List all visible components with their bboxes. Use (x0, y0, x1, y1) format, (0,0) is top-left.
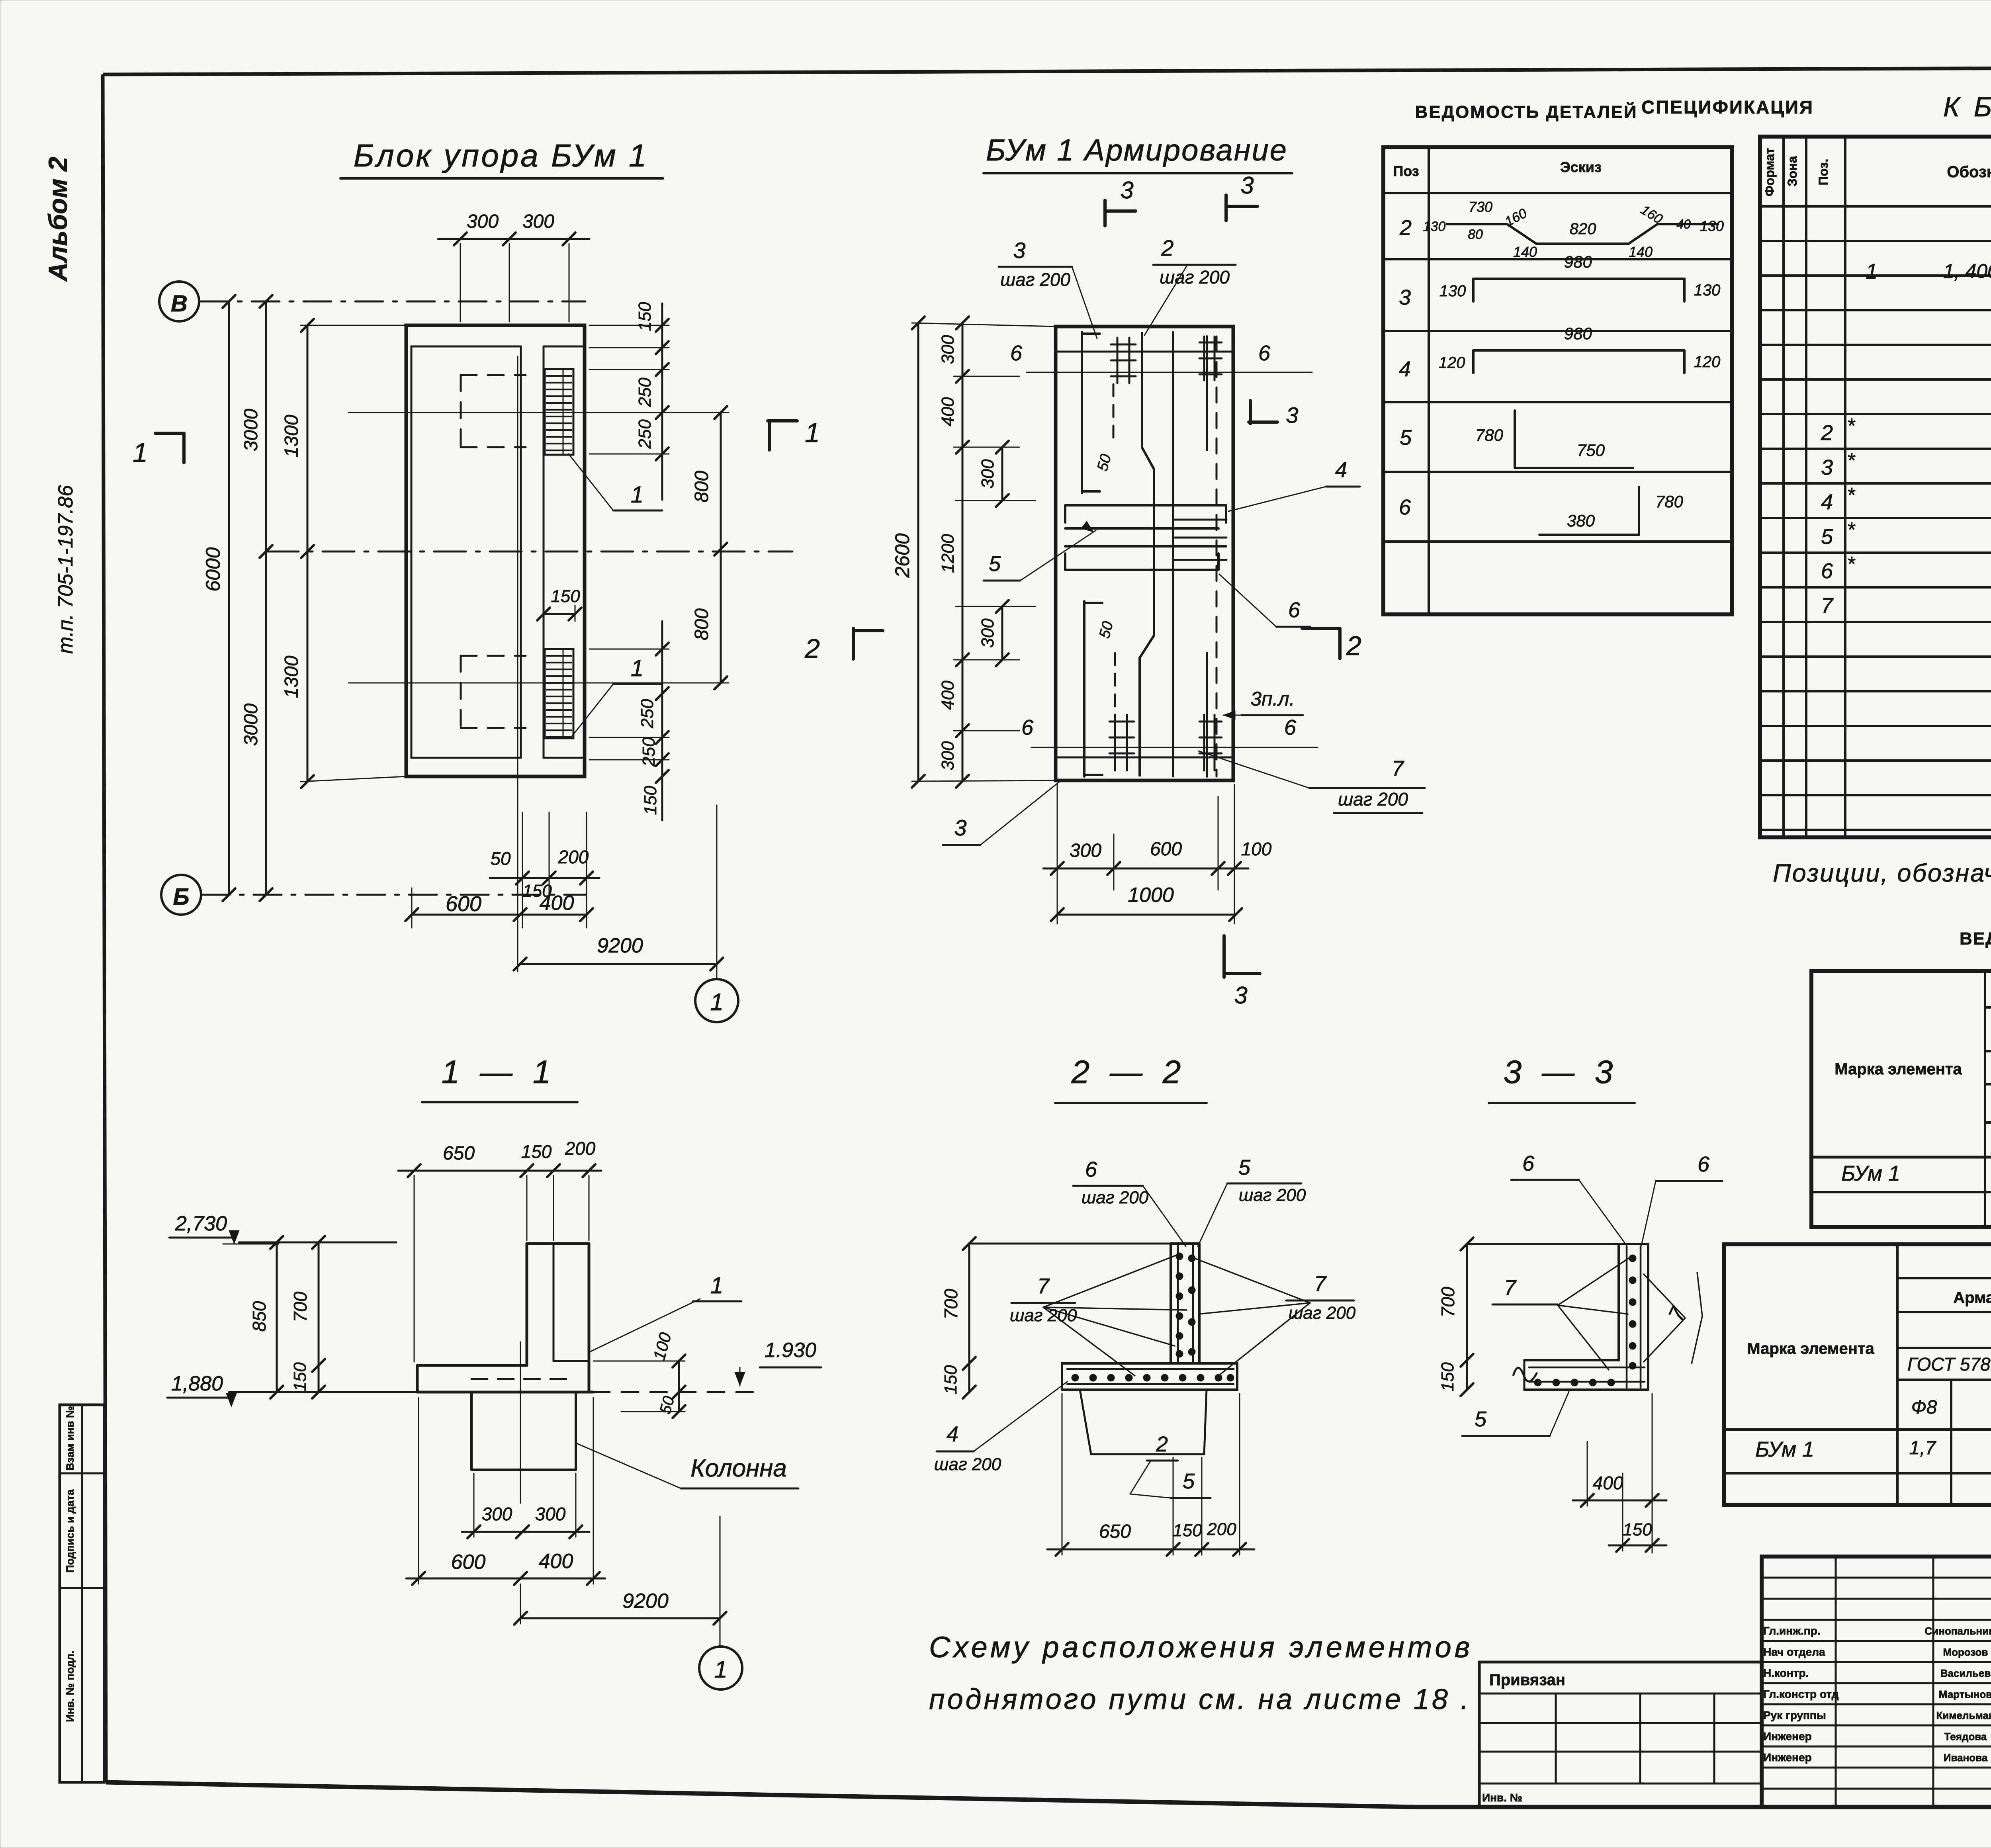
svg-text:300: 300 (978, 459, 997, 489)
section 3-3 fan leaders (1558, 1258, 1629, 1305)
section 3-3 rebar dots vertical (1629, 1255, 1636, 1262)
svg-text:*: * (1847, 518, 1856, 542)
svg-text:шаг 200: шаг 200 (1289, 1303, 1356, 1323)
svg-text:140: 140 (1629, 244, 1653, 260)
svg-text:Привязан: Привязан (1489, 1671, 1565, 1689)
svg-text:3: 3 (1120, 177, 1133, 203)
section 2-2 wall rebar lines (1177, 1246, 1179, 1362)
rebar horizontal bars middle (1065, 504, 1226, 506)
svg-text:3000: 3000 (241, 703, 262, 746)
section 3-3 L member horizontal (1524, 1359, 1619, 1361)
svg-text:Иванова: Иванова (1944, 1752, 1988, 1764)
plan bottom dims row2 (412, 914, 587, 916)
svg-text:Поз.: Поз. (1816, 159, 1831, 186)
privyazan table (1479, 1662, 1762, 1807)
svg-text:120: 120 (1439, 354, 1465, 372)
svg-text:150: 150 (641, 786, 660, 815)
svg-text:БУм 1 Армирование: БУм 1 Армирование (986, 133, 1288, 167)
svg-text:200: 200 (558, 847, 589, 867)
svg-text:730: 730 (1469, 199, 1492, 215)
svg-text:780: 780 (1475, 426, 1504, 444)
plan leader 1 top (569, 454, 613, 510)
svg-text:80: 80 (1468, 227, 1483, 242)
svg-text:Марка элемента: Марка элемента (1747, 1340, 1874, 1357)
svg-text:6: 6 (1698, 1152, 1710, 1176)
svg-text:800: 800 (691, 608, 712, 640)
stirrup cluster top right (1199, 342, 1222, 344)
svg-text:шаг 200: шаг 200 (1338, 789, 1408, 810)
svg-text:200: 200 (1207, 1519, 1236, 1539)
svg-text:шаг 200: шаг 200 (1010, 1306, 1077, 1325)
svg-text:БУм 1: БУм 1 (1841, 1162, 1900, 1185)
svg-text:ВЕДОМОСТЬ ДЕТАЛЕЙ: ВЕДОМОСТЬ ДЕТАЛЕЙ (1415, 102, 1638, 122)
svg-text:700: 700 (1438, 1287, 1458, 1317)
svg-text:Гл.констр отд: Гл.констр отд (1763, 1688, 1839, 1700)
svg-text:250: 250 (638, 699, 657, 729)
svg-text:6: 6 (1284, 716, 1297, 739)
svg-text:980: 980 (1564, 324, 1592, 343)
svg-text:600: 600 (446, 892, 481, 916)
section 1-1 level line top (239, 1242, 396, 1244)
rebar dashed short top (1113, 384, 1115, 444)
svg-text:3000: 3000 (241, 409, 262, 451)
section mark 3 bottom (1222, 936, 1226, 977)
svg-text:1: 1 (714, 1656, 727, 1683)
svg-text:400: 400 (539, 1550, 573, 1573)
section 2-2 fan leaders (1043, 1254, 1179, 1307)
svg-text:Гл.инж.пр.: Гл.инж.пр. (1763, 1625, 1821, 1637)
axis line B2 (202, 894, 585, 896)
svg-text:Инженер: Инженер (1763, 1751, 1812, 1764)
plan anchor plate bottom hatched (545, 649, 573, 738)
parts list sketch row2 profile bar (1446, 224, 1719, 244)
svg-text:200: 200 (565, 1138, 596, 1159)
stirrup cluster bottom left (1109, 721, 1134, 723)
svg-text:130: 130 (1694, 282, 1721, 299)
svg-text:Поз: Поз (1393, 163, 1419, 179)
svg-text:6: 6 (1522, 1152, 1535, 1175)
svg-text:шаг 200: шаг 200 (934, 1455, 1001, 1474)
plan inner top right segment (544, 346, 585, 348)
svg-text:7: 7 (1392, 757, 1404, 780)
page border bottom (106, 1782, 1991, 1807)
section 1-1 slab (417, 1364, 527, 1367)
plan dashed recess bottom (461, 655, 526, 657)
reinforcement bottom dims row1 (1043, 868, 1248, 870)
section 1-1 column (470, 1392, 473, 1470)
svg-text:К Блоку упора БУм 1: К Блоку упора БУм 1 (1943, 91, 1991, 122)
reinforcement inner bottom line (1056, 757, 1233, 759)
svg-text:9200: 9200 (597, 934, 643, 957)
svg-text:2: 2 (1156, 1432, 1168, 1456)
svg-text:2: 2 (804, 634, 820, 664)
svg-text:Обозначение: Обозначение (1947, 163, 1991, 181)
svg-text:780: 780 (1655, 492, 1684, 511)
svg-text:Блок упора БУм 1: Блок упора БУм 1 (354, 138, 649, 173)
svg-text:300: 300 (978, 618, 997, 648)
svg-text:Морозов: Морозов (1943, 1646, 1988, 1658)
section mark 2 right (1302, 627, 1339, 630)
svg-text:6: 6 (1258, 341, 1271, 365)
section 1-1 bottom dim 300 300 (462, 1531, 589, 1533)
svg-text:Инв. № подл.: Инв. № подл. (64, 1650, 76, 1722)
steel table 1 frame (1811, 971, 1991, 1227)
svg-text:*: * (1847, 553, 1856, 576)
section 1-1 axis line to circle (720, 1516, 721, 1646)
svg-text:1: 1 (710, 989, 723, 1015)
section 1-1 bottom dim 600 400 (406, 1578, 605, 1580)
svg-text:650: 650 (1099, 1521, 1131, 1542)
svg-text:Взам инв №: Взам инв № (64, 1406, 76, 1471)
reinforcement sub dim 300 top (1001, 447, 1003, 501)
svg-text:3: 3 (1286, 403, 1298, 428)
section 1-1 dim 50 right (678, 1392, 680, 1412)
reinforcement extension lines (912, 323, 1056, 327)
svg-text:1000: 1000 (1128, 884, 1174, 907)
title block outer (1762, 1557, 1991, 1807)
plan centerline horizontal (267, 551, 792, 553)
section mark 3 top right (1224, 195, 1228, 221)
section 1-1 level line bottom left (229, 1391, 417, 1393)
svg-text:шаг 200: шаг 200 (1160, 267, 1230, 287)
svg-text:3: 3 (1013, 238, 1025, 263)
svg-text:5: 5 (1238, 1156, 1251, 1179)
reinforcement dim 2600 (917, 323, 919, 781)
svg-text:Подпись и дата: Подпись и дата (64, 1489, 76, 1572)
svg-text:3: 3 (1821, 456, 1833, 479)
svg-text:СПЕЦИФИКАЦИЯ: СПЕЦИФИКАЦИЯ (1641, 97, 1814, 117)
svg-text:700: 700 (941, 1289, 961, 1319)
section 3-3 dim 400 (1573, 1500, 1666, 1502)
svg-text:шаг 200: шаг 200 (1082, 1188, 1149, 1207)
svg-text:9200: 9200 (622, 1590, 669, 1613)
section 3-3 rebar lines (1626, 1246, 1628, 1388)
svg-text:Инв. №: Инв. № (1482, 1791, 1522, 1804)
svg-text:6: 6 (1288, 598, 1301, 622)
svg-text:300: 300 (1070, 840, 1101, 861)
svg-text:120: 120 (1694, 353, 1721, 371)
svg-text:Позиции, обозначенные знаком *: Позиции, обозначенные знаком *, см ведом… (1773, 859, 1991, 887)
svg-text:2: 2 (1346, 631, 1361, 661)
svg-text:Ф8: Ф8 (1911, 1397, 1937, 1418)
section 1-1 dim 9200 (520, 1617, 720, 1619)
title block signature rows (1762, 1577, 1991, 1579)
svg-text:5: 5 (989, 552, 1001, 576)
svg-text:Кимельман: Кимельман (1936, 1709, 1991, 1721)
svg-text:3: 3 (1234, 982, 1247, 1009)
section 2-2 left dims (968, 1244, 970, 1392)
section 1-1 dim 100 right (678, 1361, 680, 1392)
section 1-1 column axis (520, 1342, 521, 1503)
svg-text:300: 300 (938, 335, 958, 364)
svg-text:150: 150 (1173, 1521, 1202, 1540)
svg-text:6: 6 (1399, 495, 1411, 519)
plan extension lines left (301, 325, 406, 326)
stirrup cluster bottom right (1199, 721, 1222, 723)
axis line B (200, 301, 585, 303)
rebar 3 hook bar top left (1081, 332, 1083, 493)
parts list sketch row4 bracket bar (1473, 349, 1684, 352)
svg-text:Нач отдела: Нач отдела (1763, 1646, 1825, 1658)
svg-text:1 — 1: 1 — 1 (442, 1054, 557, 1090)
svg-text:4: 4 (1821, 490, 1833, 514)
svg-text:т.п. 705-1-197.86: т.п. 705-1-197.86 (54, 485, 77, 654)
plan right dims 800 800 (720, 413, 722, 683)
svg-text:400: 400 (938, 397, 958, 426)
parts list sketch row3 bracket bar (1473, 278, 1684, 280)
section 2-2 slab (1062, 1363, 1237, 1390)
svg-text:3 — 3: 3 — 3 (1504, 1054, 1619, 1090)
plan outer rect (406, 325, 585, 776)
plan right dims col1 top (661, 303, 663, 500)
section 3-3 L member vertical (1617, 1244, 1620, 1360)
plan column axis vertical (517, 356, 518, 972)
section mark 3 top left (1103, 200, 1107, 226)
svg-text:5: 5 (1400, 426, 1412, 450)
plan inner wall line (543, 346, 545, 758)
svg-text:3: 3 (1399, 286, 1411, 309)
svg-text:В: В (171, 291, 188, 317)
section 3-3 dim 150 (1609, 1545, 1666, 1547)
section 1-1 dim 850 (276, 1242, 278, 1392)
svg-text:*: * (1847, 484, 1856, 507)
rebar dashed far side bar (1216, 336, 1218, 776)
svg-text:7: 7 (1821, 594, 1834, 618)
svg-text:1300: 1300 (281, 655, 302, 698)
title block signature columns (1835, 1557, 1837, 1807)
svg-text:650: 650 (443, 1143, 475, 1164)
svg-text:7: 7 (1504, 1276, 1517, 1300)
section 1-1 axis circle 1 (699, 1647, 742, 1690)
svg-text:250: 250 (635, 419, 655, 449)
svg-text:Васильев: Васильев (1940, 1667, 1991, 1679)
dim 1300 1300 vertical (307, 325, 309, 782)
section 2-2 slab rebar dots (1072, 1374, 1079, 1381)
axis circle B2 (161, 875, 201, 915)
svg-text:300: 300 (938, 741, 958, 770)
svg-text:Арматура класса: Арматура класса (1953, 1289, 1991, 1306)
svg-text:130: 130 (1439, 282, 1466, 300)
svg-text:3: 3 (1240, 172, 1254, 199)
section mark 1 right (768, 419, 797, 422)
plan axis circle 1 (695, 979, 738, 1022)
svg-text:1: 1 (805, 418, 820, 448)
label 6 top leader line (1027, 372, 1312, 373)
svg-text:700: 700 (290, 1291, 311, 1322)
svg-text:400: 400 (1593, 1473, 1623, 1493)
svg-text:300: 300 (482, 1504, 512, 1524)
svg-text:50: 50 (490, 848, 511, 869)
svg-text:6: 6 (1010, 341, 1023, 365)
plan inner bottom right segment (544, 757, 585, 759)
svg-text:4: 4 (1335, 458, 1347, 482)
rebar dashed short bottom (1114, 653, 1116, 713)
svg-text:1: 1 (631, 655, 643, 681)
svg-text:150: 150 (290, 1362, 310, 1392)
svg-text:1200: 1200 (938, 534, 958, 573)
svg-text:980: 980 (1564, 252, 1592, 271)
svg-text:820: 820 (1570, 220, 1596, 238)
svg-text:Схему расположения элементов: Схему расположения элементов (929, 1631, 1473, 1664)
section 1-1 dim 700 150 (318, 1242, 320, 1392)
svg-text:1,880: 1,880 (171, 1372, 223, 1395)
svg-text:2: 2 (1821, 421, 1833, 445)
section 1-1 leader 1 (589, 1299, 700, 1352)
svg-text:300: 300 (467, 211, 499, 232)
rebar right top bar (1206, 336, 1208, 450)
svg-text:1300: 1300 (281, 415, 302, 457)
plan inner slab rect (411, 346, 521, 758)
reinforcement bottom dims 1000 (1057, 914, 1236, 916)
plan top dim 300 300 (438, 238, 589, 240)
plan anchor plate top hatched (545, 369, 573, 455)
svg-text:7: 7 (1037, 1274, 1050, 1298)
section mark 3 mid right (1249, 401, 1252, 424)
svg-text:800: 800 (691, 471, 712, 503)
svg-text:150: 150 (1438, 1362, 1457, 1392)
plan anchor axis bottom (348, 682, 729, 684)
svg-text:400: 400 (938, 681, 958, 710)
svg-text:4: 4 (947, 1422, 958, 1446)
svg-text:Эскиз: Эскиз (1560, 159, 1602, 175)
svg-text:1, 400-15 В, 1: 1, 400-15 В, 1 (1943, 260, 1991, 282)
plan dim 9200 (520, 963, 717, 965)
svg-text:1: 1 (1866, 260, 1878, 284)
stirrup cluster top left (1111, 344, 1136, 346)
svg-text:100: 100 (1241, 839, 1272, 859)
svg-text:Мартынов: Мартынов (1939, 1688, 1991, 1700)
section 2-2 top level line (969, 1243, 1171, 1245)
section 3-3 left dims (1466, 1244, 1468, 1390)
svg-text:750: 750 (1577, 441, 1605, 460)
rebar 2 snake bar (1140, 332, 1154, 776)
svg-text:150: 150 (551, 587, 580, 606)
svg-text:300: 300 (522, 211, 554, 232)
svg-text:130: 130 (1700, 218, 1724, 234)
svg-text:1: 1 (133, 438, 148, 468)
svg-text:шаг 200: шаг 200 (1239, 1185, 1306, 1205)
svg-text:40: 40 (1676, 217, 1691, 231)
specification table frame (1760, 137, 1991, 837)
svg-text:4: 4 (1399, 357, 1411, 381)
reinforcement outer rect (1056, 327, 1233, 780)
svg-text:Н.контр.: Н.контр. (1763, 1667, 1809, 1679)
svg-text:7: 7 (1314, 1272, 1327, 1296)
svg-text:1,7: 1,7 (1909, 1437, 1937, 1459)
svg-text:300: 300 (535, 1504, 566, 1524)
plan right dims col1 bottom (661, 621, 663, 820)
plan anchor axis top (348, 412, 729, 413)
steel table 2 frame (1724, 1244, 1991, 1505)
svg-text:Формат: Формат (1762, 148, 1777, 197)
svg-text:3: 3 (954, 815, 966, 840)
page border top (103, 66, 1991, 74)
svg-text:600: 600 (1150, 839, 1182, 860)
plan bottom dims row1 (490, 877, 599, 879)
svg-text:2: 2 (1161, 235, 1173, 260)
svg-text:2600: 2600 (891, 533, 913, 578)
section mark 1 left (155, 432, 184, 435)
section 1-1 wall (526, 1244, 528, 1365)
svg-text:БУм 1: БУм 1 (1755, 1437, 1814, 1461)
reinforcement inner top line (1056, 351, 1233, 353)
svg-text:3п.л.: 3п.л. (1250, 688, 1295, 710)
reinforcement dim column (962, 323, 964, 781)
parts list table frame (1383, 147, 1732, 614)
svg-text:Рук группы: Рук группы (1763, 1709, 1826, 1721)
svg-text:Марка элемента: Марка элемента (1835, 1060, 1962, 1078)
section 3-3 top level line (1467, 1243, 1619, 1245)
parts list sketch row5 L bar (1514, 411, 1516, 468)
svg-text:6: 6 (1085, 1158, 1097, 1181)
svg-text:130: 130 (1423, 219, 1446, 234)
svg-text:5: 5 (1475, 1407, 1487, 1431)
svg-text:*: * (1847, 415, 1856, 438)
svg-text:150: 150 (941, 1365, 960, 1394)
rebar straight bar center (1172, 332, 1174, 776)
svg-text:шаг 200: шаг 200 (1000, 269, 1070, 290)
section 2-2 wall rebar dots (1176, 1253, 1183, 1260)
section 2-2 bottom dims (1047, 1549, 1254, 1551)
parts list sketch row6 L bar (1539, 534, 1639, 536)
svg-text:5: 5 (1183, 1469, 1195, 1493)
section mark 2 left (852, 628, 855, 659)
label 6 bottom leader line (1031, 747, 1318, 748)
svg-text:5: 5 (1821, 525, 1833, 549)
reinforcement sub dim 300 bottom (1001, 606, 1003, 660)
section 2-2 wall (1170, 1244, 1172, 1363)
svg-text:850: 850 (249, 1301, 270, 1332)
svg-text:Б: Б (173, 884, 189, 910)
rebar short horizontals right (1175, 519, 1226, 521)
section 3-3 rebar dots horizontal (1534, 1379, 1541, 1386)
section 2-2 column trapezoid (1080, 1390, 1207, 1454)
svg-text:ГОСТ 5781- 82: ГОСТ 5781- 82 (1907, 1354, 1991, 1375)
section 3-3 break squiggle (1513, 1368, 1537, 1381)
section 1-1 top dims (398, 1170, 601, 1172)
svg-text:ВЕДОМОСТЬ РАСХОДА СТАЛИ НА: ВЕДОМОСТЬ РАСХОДА СТАЛИ НА ЭЛЕМЕНТ, (1960, 929, 1991, 948)
svg-text:150: 150 (635, 302, 655, 331)
svg-text:400: 400 (540, 892, 574, 915)
svg-text:250: 250 (639, 737, 659, 767)
svg-text:250: 250 (635, 377, 655, 407)
svg-text:Зона: Зона (1785, 156, 1799, 186)
stamp boxes left bottom (60, 1405, 104, 1782)
svg-text:150: 150 (521, 1141, 552, 1162)
specification row lines (1760, 240, 1991, 242)
svg-text:Колонна: Колонна (690, 1455, 787, 1482)
rebar right bottom bar (1206, 653, 1208, 776)
svg-text:6: 6 (1821, 559, 1833, 583)
svg-text:1: 1 (631, 482, 643, 508)
svg-text:Инженер: Инженер (1763, 1730, 1812, 1742)
svg-text:140: 140 (1513, 244, 1537, 260)
svg-text:600: 600 (451, 1551, 486, 1574)
svg-text:2 — 2: 2 — 2 (1071, 1054, 1187, 1090)
svg-text:поднятого пути см. на листе: поднятого пути см. на листе 18 . (929, 1684, 1471, 1715)
svg-text:2: 2 (1399, 216, 1412, 240)
svg-text:Альбом 2: Альбом 2 (43, 156, 72, 282)
svg-text:380: 380 (1567, 511, 1595, 530)
svg-text:2,730: 2,730 (175, 1212, 227, 1235)
rebar 3 hook bar bottom left (1083, 601, 1085, 776)
svg-text:6: 6 (1021, 716, 1034, 739)
plan leader 1 bottom (572, 684, 613, 736)
axis circle B (159, 282, 199, 321)
svg-text:*: * (1847, 449, 1856, 472)
plan axis 1 vertical line (716, 805, 718, 979)
section 1-1 slab bottom dashed right (593, 1391, 765, 1393)
